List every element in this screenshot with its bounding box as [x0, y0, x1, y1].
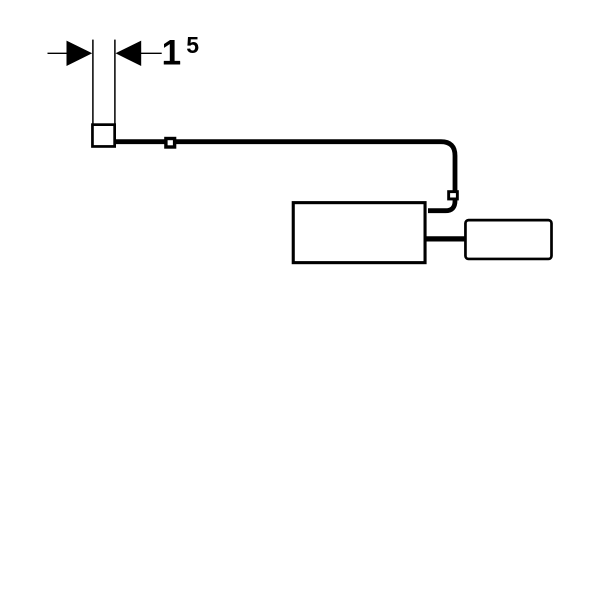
svg-text:5: 5	[186, 32, 199, 58]
svg-text:1: 1	[162, 33, 181, 72]
